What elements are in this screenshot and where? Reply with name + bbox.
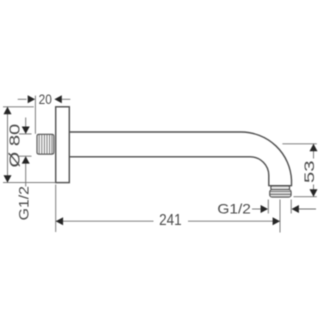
svg-text:241: 241 <box>159 212 182 229</box>
svg-text:G1/2: G1/2 <box>217 201 251 217</box>
svg-text:G1/2: G1/2 <box>15 186 31 221</box>
svg-text:20: 20 <box>39 92 52 107</box>
svg-text:Ø 80: Ø 80 <box>7 124 24 168</box>
dimension 53 arrows <box>310 144 318 197</box>
dimension 53 line <box>282 144 316 197</box>
wall flange escutcheon <box>56 107 70 183</box>
dimension G1/2 wall side line <box>19 118 32 187</box>
svg-text:53: 53 <box>301 160 317 183</box>
dimension G1/2 outlet line <box>252 200 316 214</box>
dimension 241 arrows <box>56 217 280 225</box>
dimension diameter 80 arrows <box>4 107 12 183</box>
dimension G1/2 outlet arrows <box>261 205 299 213</box>
dimension G1/2 wall side arrows <box>22 127 30 164</box>
dimension 20 arrows <box>28 95 62 103</box>
shower arm pipe <box>69 132 291 186</box>
wall thread knurl <box>37 134 54 154</box>
outlet thread G1/2 bulge <box>270 190 291 198</box>
dimension diameter 80 line <box>3 107 56 183</box>
outlet thread G1/2 neck ring <box>271 186 290 190</box>
dimension 241 line <box>56 185 280 233</box>
dimension 20 line <box>18 96 71 134</box>
